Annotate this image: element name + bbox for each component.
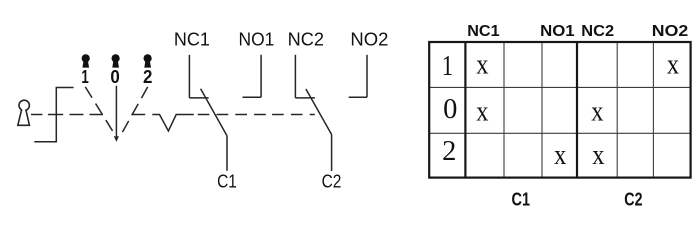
contact NC2: [295, 55, 331, 171]
svg-text:x: x: [591, 97, 603, 128]
svg-text:x: x: [476, 50, 488, 81]
key position icon 0: [112, 54, 120, 67]
svg-text:1: 1: [442, 51, 453, 82]
svg-text:0: 0: [110, 67, 119, 87]
svg-text:NO1: NO1: [540, 23, 575, 40]
main actuator dashed line: [31, 114, 315, 116]
svg-text:NO2: NO2: [350, 30, 388, 50]
svg-text:2: 2: [143, 67, 152, 87]
key position icon 1: [82, 54, 90, 67]
svg-text:NC1: NC1: [467, 23, 499, 40]
svg-text:NO1: NO1: [239, 30, 275, 50]
mechanical latch step line: [34, 88, 73, 142]
svg-text:C2: C2: [322, 172, 342, 192]
svg-text:NC2: NC2: [288, 30, 324, 50]
position-2 dashed stroke: [122, 87, 148, 134]
svg-text:x: x: [476, 97, 488, 128]
svg-text:NO2: NO2: [652, 23, 689, 40]
detent V notch: [152, 115, 194, 132]
truth table grid: [429, 42, 690, 178]
position-1 dashed stroke: [85, 87, 114, 134]
svg-text:C2: C2: [624, 188, 642, 209]
svg-text:NC2: NC2: [581, 23, 614, 40]
contact NC1: [189, 55, 227, 171]
svg-text:C1: C1: [512, 188, 531, 209]
svg-text:x: x: [667, 50, 679, 81]
svg-text:NC1: NC1: [174, 30, 210, 50]
svg-text:2: 2: [442, 136, 456, 167]
svg-text:x: x: [554, 140, 566, 171]
contact NO1: [243, 55, 262, 97]
position-0 pointer with arrowhead: [115, 86, 117, 137]
svg-text:0: 0: [443, 94, 457, 125]
svg-text:C1: C1: [217, 172, 237, 192]
key symbol (keyhole, switch actuator): [18, 100, 30, 125]
svg-text:1: 1: [81, 67, 88, 87]
svg-text:x: x: [592, 140, 604, 171]
key position icon 2: [144, 54, 152, 67]
contact NO2: [349, 55, 367, 97]
